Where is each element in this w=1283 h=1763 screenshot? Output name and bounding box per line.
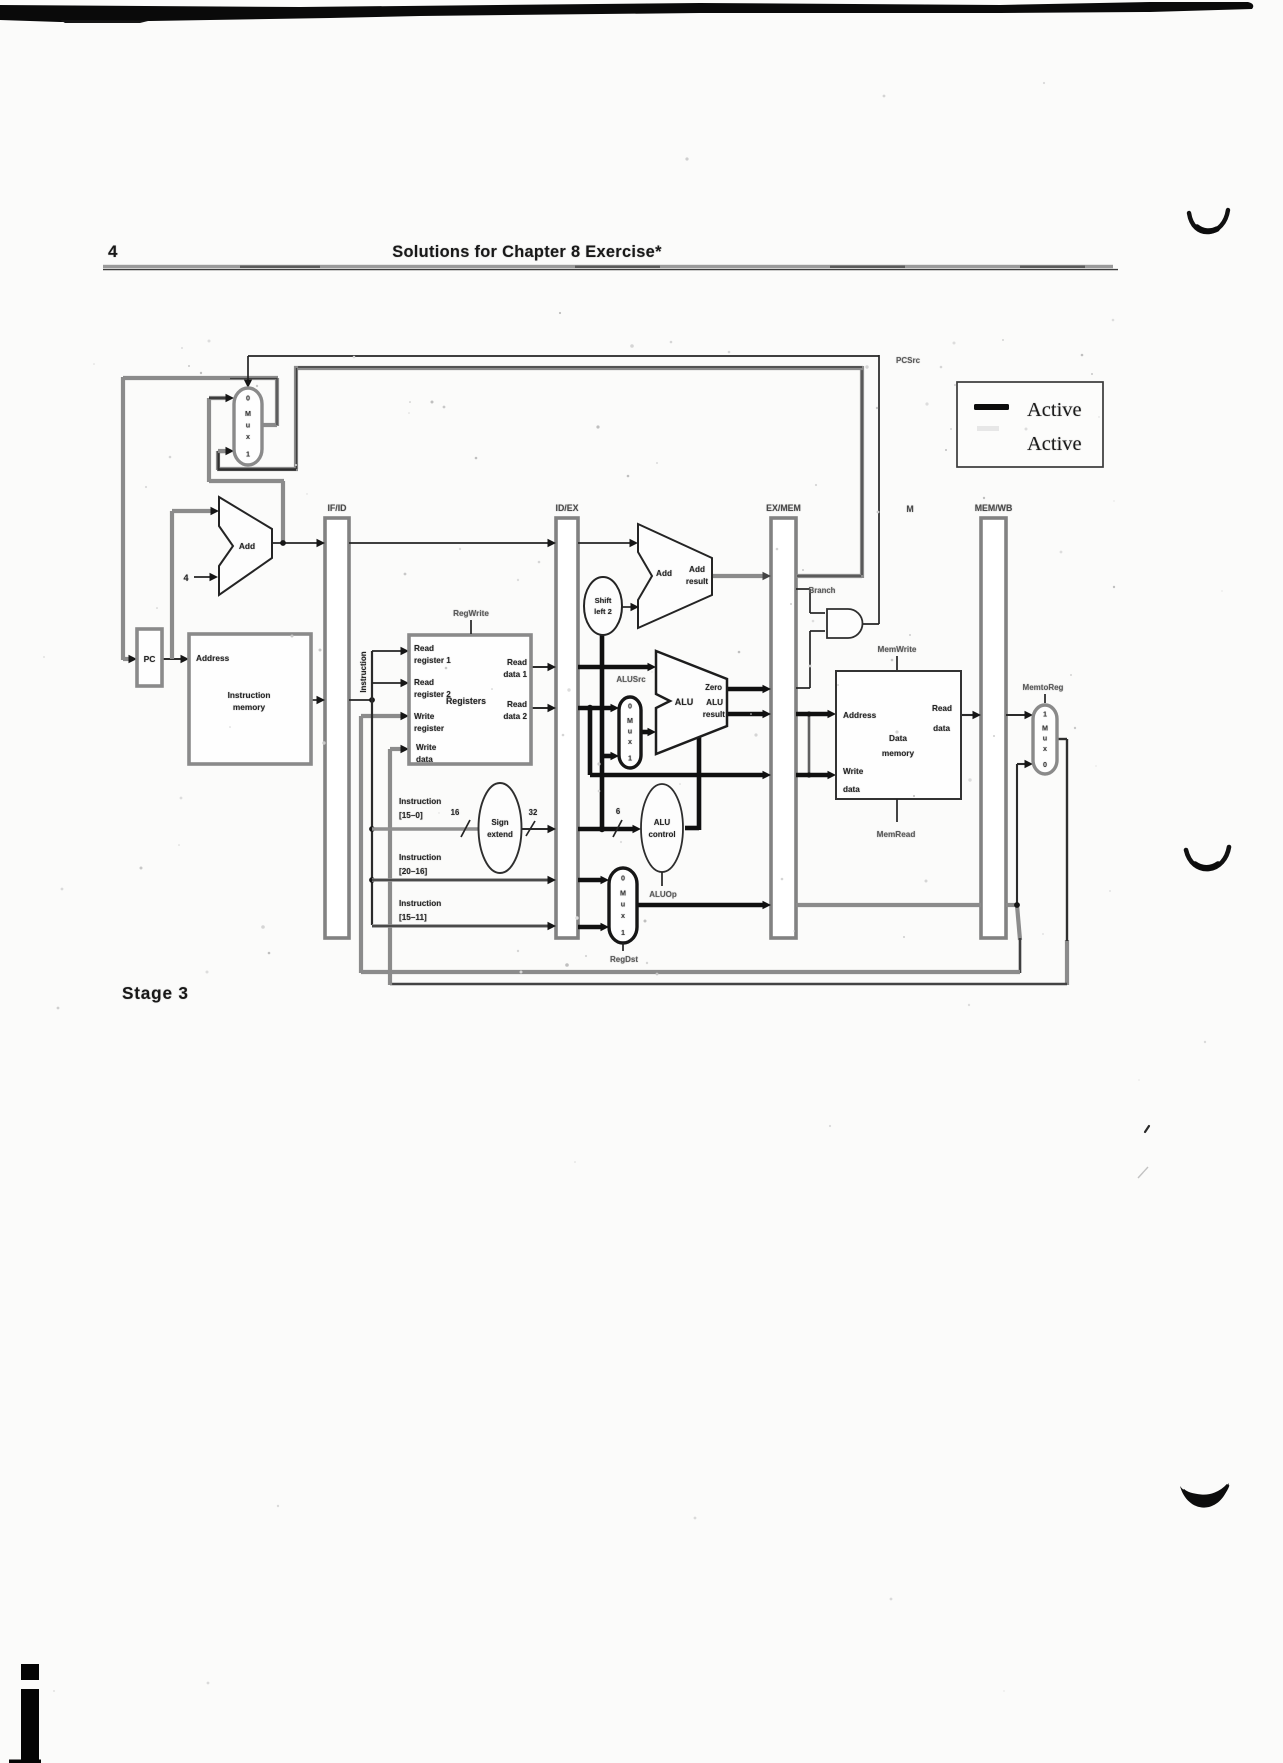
svg-text:Read: Read <box>507 658 527 667</box>
svg-text:M: M <box>620 888 626 897</box>
svg-text:Sign: Sign <box>491 818 508 827</box>
svg-text:Write: Write <box>414 712 435 721</box>
svg-text:4: 4 <box>183 573 188 583</box>
svg-text:MemRead: MemRead <box>877 830 916 839</box>
svg-text:[15–11]: [15–11] <box>399 913 427 922</box>
svg-text:Instruction: Instruction <box>228 690 271 700</box>
svg-text:extend: extend <box>487 830 513 839</box>
svg-text:Shift: Shift <box>595 596 612 605</box>
svg-text:PC: PC <box>144 654 156 664</box>
svg-text:1: 1 <box>628 754 632 763</box>
svg-text:ALU: ALU <box>675 697 694 707</box>
svg-text:x: x <box>628 737 632 746</box>
svg-text:Instruction: Instruction <box>399 899 441 908</box>
svg-text:MemtoReg: MemtoReg <box>1023 683 1064 692</box>
svg-text:Instruction: Instruction <box>359 651 368 692</box>
svg-text:memory: memory <box>233 702 266 712</box>
svg-text:RegDst: RegDst <box>610 955 638 964</box>
svg-text:Read: Read <box>507 700 527 709</box>
svg-text:Branch: Branch <box>809 586 836 595</box>
svg-text:data: data <box>843 785 860 794</box>
svg-text:1: 1 <box>246 450 250 459</box>
svg-text:data 2: data 2 <box>503 712 527 721</box>
svg-text:M: M <box>1042 723 1048 732</box>
svg-text:x: x <box>246 432 250 441</box>
svg-text:Solutions for Chapter 8 Exerci: Solutions for Chapter 8 Exercise* <box>392 243 662 261</box>
svg-text:0: 0 <box>246 394 250 403</box>
svg-text:ALU: ALU <box>706 698 723 707</box>
svg-text:Active: Active <box>1027 399 1082 421</box>
svg-text:32: 32 <box>529 808 538 817</box>
svg-text:MemWrite: MemWrite <box>878 645 917 654</box>
svg-text:0: 0 <box>1043 760 1047 769</box>
svg-text:ALUSrc: ALUSrc <box>616 675 646 684</box>
svg-text:EX/MEM: EX/MEM <box>766 503 801 513</box>
svg-text:memory: memory <box>882 748 915 758</box>
svg-text:x: x <box>1043 744 1047 753</box>
svg-text:M: M <box>245 409 251 418</box>
svg-text:u: u <box>628 727 632 736</box>
svg-text:1: 1 <box>1043 709 1047 718</box>
svg-text:Zero: Zero <box>705 683 722 692</box>
svg-text:16: 16 <box>451 808 460 817</box>
svg-text:ALU: ALU <box>654 818 671 827</box>
svg-text:MEM/WB: MEM/WB <box>975 503 1013 513</box>
svg-text:Address: Address <box>196 653 230 663</box>
svg-text:Read: Read <box>414 678 434 687</box>
svg-text:left 2: left 2 <box>594 607 612 616</box>
svg-text:PCSrc: PCSrc <box>896 356 921 365</box>
svg-text:Read: Read <box>932 704 952 713</box>
svg-text:register 1: register 1 <box>414 656 451 665</box>
svg-text:M: M <box>906 504 913 514</box>
svg-text:u: u <box>621 900 625 909</box>
svg-text:register: register <box>414 724 445 733</box>
svg-text:result: result <box>686 577 709 586</box>
svg-text:x: x <box>621 911 625 920</box>
svg-text:data: data <box>416 755 433 764</box>
svg-text:Active: Active <box>1027 433 1082 455</box>
svg-text:[15–0]: [15–0] <box>399 811 423 820</box>
svg-text:ID/EX: ID/EX <box>556 503 579 513</box>
svg-text:M: M <box>627 716 633 725</box>
svg-text:6: 6 <box>616 807 621 816</box>
svg-text:Read: Read <box>414 644 434 653</box>
svg-text:ALUOp: ALUOp <box>649 890 677 899</box>
svg-text:control: control <box>648 830 675 839</box>
svg-text:data 1: data 1 <box>503 670 527 679</box>
svg-text:Write: Write <box>843 767 864 776</box>
svg-text:result: result <box>703 710 726 719</box>
svg-text:Add: Add <box>656 569 672 578</box>
svg-text:Add: Add <box>239 541 255 551</box>
svg-text:Instruction: Instruction <box>399 853 441 862</box>
svg-text:u: u <box>1043 734 1047 743</box>
svg-text:0: 0 <box>621 873 625 882</box>
svg-text:Stage 3: Stage 3 <box>122 983 189 1003</box>
svg-text:Write: Write <box>416 743 437 752</box>
svg-text:Add: Add <box>689 565 705 574</box>
svg-text:Data: Data <box>889 733 907 743</box>
svg-text:Address: Address <box>843 710 877 720</box>
svg-text:0: 0 <box>628 702 632 711</box>
svg-text:4: 4 <box>108 242 118 261</box>
svg-text:Instruction: Instruction <box>399 797 441 806</box>
svg-text:[20–16]: [20–16] <box>399 867 427 876</box>
svg-text:RegWrite: RegWrite <box>453 609 489 618</box>
svg-text:u: u <box>246 420 250 429</box>
svg-text:Registers: Registers <box>446 696 486 706</box>
svg-text:IF/ID: IF/ID <box>327 503 346 513</box>
svg-text:data: data <box>933 724 950 733</box>
svg-text:1: 1 <box>621 928 625 937</box>
